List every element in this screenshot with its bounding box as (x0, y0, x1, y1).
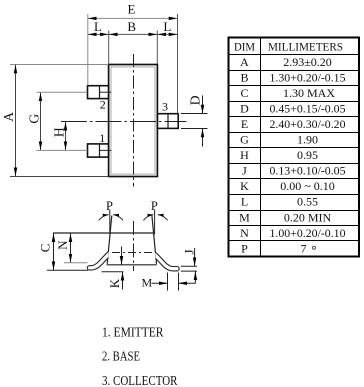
svg-text:P: P (106, 199, 113, 213)
pin 2 (88, 86, 109, 99)
svg-text:A: A (240, 55, 249, 69)
extension C bottom / seating (47, 269, 88, 271)
svg-text:2.40+0.30/-0.20: 2.40+0.30/-0.20 (270, 117, 346, 131)
svg-text:J: J (242, 164, 247, 178)
extension pin3 bottom for D (181, 128, 208, 130)
svg-text:L: L (163, 19, 171, 34)
svg-text:0.13+0.10/-0.05: 0.13+0.10/-0.05 (270, 164, 346, 178)
extension line right lead tip (177, 14, 179, 114)
svg-text:M: M (141, 276, 152, 290)
svg-text:1. EMITTER: 1. EMITTER (102, 325, 164, 340)
dimension L right (158, 33, 178, 35)
extension pin3 top for D (181, 113, 208, 115)
pin 3 (157, 114, 178, 129)
dimension D arrows (202, 96, 204, 114)
P angle arrows right (143, 215, 153, 221)
pin 1 (88, 144, 109, 157)
svg-text:C: C (240, 86, 248, 100)
body inner outline (111, 67, 155, 174)
svg-text:K: K (240, 179, 249, 193)
svg-text:D: D (187, 95, 202, 105)
table outer border (229, 38, 360, 257)
extension line left lead tips (87, 14, 89, 86)
svg-text:3: 3 (162, 100, 168, 114)
P reference line left (109, 210, 111, 235)
dimension C (53, 233, 55, 270)
svg-text:2: 2 (100, 98, 106, 112)
svg-text:D: D (240, 101, 249, 115)
svg-text:7: 7 (301, 241, 307, 255)
dimension J arrows (194, 248, 196, 266)
svg-text:C: C (37, 244, 52, 253)
svg-text:0.45+0.15/-0.05: 0.45+0.15/-0.05 (270, 101, 346, 115)
table body text (239, 55, 345, 256)
svg-text:E: E (241, 117, 248, 131)
svg-text:1.30+0.20/-0.15: 1.30+0.20/-0.15 (270, 70, 346, 84)
svg-text:1.00+0.20/-0.10: 1.00+0.20/-0.10 (270, 226, 346, 240)
table column divider (260, 38, 262, 257)
side body right edge (slanted) (152, 216, 157, 264)
svg-text:1: 1 (99, 131, 105, 145)
dimension B (109, 33, 157, 35)
body outline (top view) (109, 65, 158, 177)
svg-text:P: P (241, 241, 248, 255)
svg-text:DIM: DIM (234, 39, 255, 53)
M extension lines (167, 273, 169, 291)
extension body top to A (10, 64, 109, 66)
svg-text:MILLIMETERS: MILLIMETERS (268, 39, 343, 53)
right lead (gull wing) (154, 254, 177, 269)
side body bottom edge (107, 264, 157, 266)
svg-text:H: H (51, 127, 66, 137)
svg-text:0.95: 0.95 (297, 148, 318, 162)
svg-text:P: P (151, 199, 158, 213)
side body left edge (slanted) (107, 216, 112, 264)
svg-text:1.90: 1.90 (297, 133, 318, 147)
pin 1 centerline extension (37, 149, 88, 151)
K bottom extension line (102, 271, 124, 273)
svg-text:B: B (127, 19, 136, 34)
extension line body right (156, 31, 158, 65)
dimension H (65, 122, 67, 150)
dimension L left (88, 33, 109, 35)
table header (234, 39, 343, 53)
svg-text:0.00 ~ 0.10: 0.00 ~ 0.10 (280, 179, 335, 193)
svg-text:L: L (94, 19, 102, 34)
svg-text:E: E (128, 2, 136, 17)
svg-text:H: H (240, 148, 249, 162)
extension body bottom to A (10, 176, 109, 178)
svg-text:A: A (1, 112, 16, 122)
svg-text:G: G (26, 114, 41, 124)
svg-text:J: J (181, 249, 196, 254)
P angle arrows left (99, 215, 109, 221)
table row lines (229, 54, 360, 56)
pin 2 centerline extension (37, 91, 88, 93)
dimension E (88, 17, 177, 19)
svg-text:G: G (240, 133, 249, 147)
J extension lines (181, 265, 197, 267)
svg-text:M: M (239, 210, 250, 224)
horizontal centerline (61, 121, 187, 123)
pin function notes (102, 325, 178, 387)
svg-text:N: N (55, 240, 70, 250)
svg-text:2. BASE: 2. BASE (102, 349, 140, 364)
degree symbol for P row (313, 246, 316, 249)
side body top line with extension (53, 232, 154, 234)
extension line body left (108, 31, 110, 65)
svg-text:K: K (107, 278, 122, 288)
svg-text:N: N (240, 226, 249, 240)
dimension G (40, 93, 42, 150)
left lead (gull wing) (90, 253, 111, 268)
svg-text:0.55: 0.55 (297, 195, 318, 209)
vertical centerline (133, 54, 135, 187)
svg-text:0.20 MIN: 0.20 MIN (284, 210, 332, 224)
dimension K arrows (121, 247, 123, 265)
side horizontal centerline (112, 252, 153, 254)
extension N bottom (64, 262, 88, 264)
svg-text:L: L (241, 195, 248, 209)
dimension A (15, 65, 17, 176)
dimension M arrows (152, 282, 168, 284)
svg-text:B: B (240, 70, 248, 84)
P reference line right (154, 210, 156, 235)
svg-text:1.30 MAX: 1.30 MAX (283, 86, 335, 100)
svg-text:3. COLLECTOR: 3. COLLECTOR (102, 373, 178, 387)
dimension N (70, 233, 72, 262)
svg-text:2.93±0.20: 2.93±0.20 (283, 55, 332, 69)
side vertical centerline (133, 221, 135, 271)
